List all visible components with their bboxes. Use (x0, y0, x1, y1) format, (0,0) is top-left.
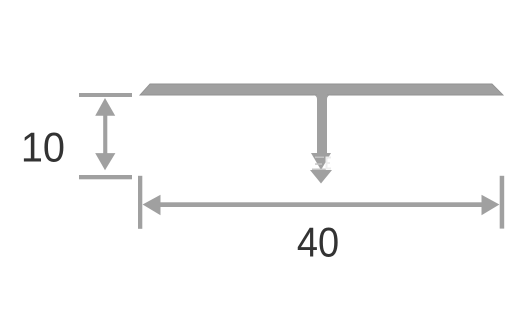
dimension 10: vertical double arrow (95, 98, 115, 170)
dimension 40: left extension line (138, 176, 142, 229)
stem-flange fillet left (313, 95, 317, 99)
watermark dashes on stem (312, 157, 326, 171)
dimension 40: right extension line (500, 176, 505, 229)
svg-text:40: 40 (297, 220, 339, 266)
dimension 10: top tick (79, 93, 132, 97)
stem-flange fillet right (327, 95, 331, 99)
T-profile stem with double down arrow (310, 94, 332, 184)
T-profile flange (140, 84, 503, 95)
watermark letter E on arrow edge (326, 157, 332, 170)
svg-text:10: 10 (21, 123, 65, 170)
dimension 40: horizontal line with arrows (143, 195, 500, 216)
dimension 10: bottom tick (79, 175, 132, 179)
